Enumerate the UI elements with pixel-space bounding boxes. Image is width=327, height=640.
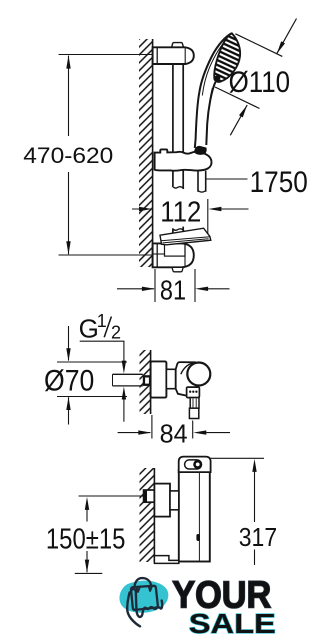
svg-text:84: 84 bbox=[160, 419, 188, 449]
rail resumes above soap dish with break cut bbox=[172, 228, 184, 230]
wall face line (middle) bbox=[150, 350, 152, 414]
svg-text:Ø110: Ø110 bbox=[229, 66, 291, 99]
dimension 470-620 top reference line bbox=[59, 54, 153, 56]
hand: knuckles row bbox=[143, 601, 162, 612]
shower holder body bbox=[155, 149, 212, 170]
handle dark tip in holder bbox=[194, 146, 206, 155]
svg-text:81: 81 bbox=[160, 274, 186, 305]
wall hatch (middle) bbox=[140, 350, 151, 414]
hand: finger left edge + wrist curl bbox=[127, 593, 140, 627]
soap dish tray bbox=[160, 228, 211, 245]
wall face line (bottom) bbox=[153, 468, 155, 562]
G1/2 leader and arrows bbox=[80, 341, 124, 361]
shopping bag bbox=[131, 586, 158, 610]
wall hatch (bottom) bbox=[140, 468, 155, 562]
bottom outlet block bbox=[154, 556, 178, 564]
pipe fitting in wall bbox=[143, 375, 151, 386]
dark cap at face bottom bbox=[212, 74, 221, 83]
hand: finger right edge with bent joint bbox=[131, 589, 143, 617]
wall hatch (top drawing) bbox=[139, 39, 153, 267]
dimension 84 bbox=[151, 415, 153, 439]
bottom bracket bbox=[153, 243, 194, 267]
dimension 112 bbox=[132, 208, 151, 210]
column inner line bbox=[198, 472, 200, 560]
mixer neck bbox=[166, 369, 175, 388]
lever arc bbox=[181, 363, 195, 375]
wall face line bbox=[152, 39, 154, 267]
mixer neck (side) bbox=[170, 491, 179, 510]
teal blob bbox=[119, 581, 168, 613]
bag strap right bbox=[149, 587, 152, 591]
Ø70 dimension arrows bbox=[68, 326, 70, 361]
rail (vertical bar) upper bbox=[172, 62, 174, 153]
mixer knob (side view circle) bbox=[187, 363, 210, 386]
Ø110 lower arrow bbox=[230, 105, 247, 135]
column dot bbox=[196, 534, 200, 541]
svg-text:112: 112 bbox=[160, 197, 201, 229]
top bracket knob bbox=[172, 43, 184, 48]
cap slot pill bbox=[185, 460, 202, 469]
supply pipe line bbox=[79, 495, 144, 497]
dimension 150±15 bbox=[85, 497, 89, 510]
spray face crescent bbox=[214, 33, 240, 82]
head inner line bbox=[202, 39, 227, 96]
handle right edge bbox=[206, 82, 215, 145]
svg-text:2: 2 bbox=[111, 322, 121, 342]
cap ring bbox=[195, 461, 201, 467]
rail below holder with break cut bbox=[172, 170, 174, 186]
mixer outlet bbox=[190, 398, 199, 409]
supply pipe bbox=[113, 373, 143, 375]
top bracket bbox=[153, 47, 194, 64]
svg-text:150±15: 150±15 bbox=[46, 523, 126, 555]
bottom bracket knob bbox=[172, 267, 183, 272]
dimension 81 bbox=[154, 269, 156, 302]
svg-text:317: 317 bbox=[239, 522, 277, 552]
svg-text:1750: 1750 bbox=[250, 166, 308, 199]
dimension Ø110 lower tangent line bbox=[215, 87, 260, 109]
mixer escutcheon (side) bbox=[154, 484, 170, 517]
bag handle bbox=[134, 578, 151, 588]
arrow down 470-620 bbox=[66, 241, 70, 254]
svg-text:1: 1 bbox=[97, 311, 107, 331]
dimension 317 bbox=[211, 457, 264, 459]
1750 leader line bbox=[206, 178, 247, 180]
wall union fitting bbox=[144, 490, 155, 502]
mixer body cone bbox=[176, 362, 197, 397]
hand shower head outline bbox=[195, 33, 232, 148]
handle inner line bbox=[206, 88, 212, 143]
bag strap left bbox=[137, 587, 140, 592]
dimension line 470-620 bbox=[68, 56, 70, 255]
Ø110 upper arrow bbox=[277, 19, 297, 54]
dimension Ø110 upper tangent line bbox=[235, 34, 282, 57]
arrow up 470-620 bbox=[66, 55, 70, 68]
mixer escutcheon bbox=[151, 361, 167, 397]
dimension 470-620 bottom reference line bbox=[59, 254, 153, 256]
svg-text:Ø70: Ø70 bbox=[44, 365, 94, 398]
svg-text:470-620: 470-620 bbox=[23, 143, 113, 168]
shower column body bbox=[179, 470, 210, 562]
ribbed block below knob bbox=[187, 387, 200, 398]
shower hose bbox=[197, 171, 199, 192]
svg-text:SALE: SALE bbox=[189, 608, 276, 639]
column top cap bbox=[179, 457, 211, 473]
escutcheon extension lines (Ø70) bbox=[57, 361, 127, 363]
